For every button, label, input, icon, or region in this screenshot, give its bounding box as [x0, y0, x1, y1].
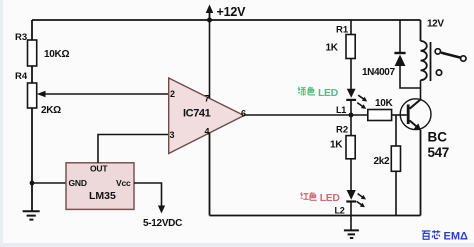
- wire LM35 OUT to op-amp pin 3: [98, 135, 169, 163]
- supply arrowhead down: [158, 206, 165, 214]
- watermark 百芯 EMA: [422, 230, 441, 239]
- svg-text:L2: L2: [335, 206, 345, 216]
- wiper arrowhead: [37, 91, 46, 97]
- transistor Q1 BC547: [400, 99, 431, 130]
- ground (right): [344, 230, 359, 238]
- svg-text:LED: LED: [318, 87, 339, 99]
- svg-text:R4: R4: [15, 71, 28, 82]
- svg-text:547: 547: [428, 145, 449, 160]
- resistor R6 2k2: [391, 146, 400, 171]
- LED L2 (red) symbol: [347, 190, 356, 200]
- wire R4 bottom to GND junction: [31, 108, 33, 211]
- resistor R1: [346, 35, 355, 59]
- svg-text:5-12VDC: 5-12VDC: [143, 218, 182, 229]
- wire top rail corner into relay: [420, 20, 422, 41]
- svg-text:2k2: 2k2: [374, 156, 391, 167]
- relay K1 coil: [421, 41, 427, 80]
- wire base node to 2k2: [395, 115, 397, 146]
- emitter stroke: [410, 121, 419, 129]
- svg-text:3: 3: [170, 130, 175, 140]
- wire LM35 Vcc to supply arrow: [134, 183, 162, 207]
- resistor R2: [346, 136, 355, 159]
- LED L2 arrow a: [356, 192, 367, 202]
- wire 2k2 to bottom rail: [395, 171, 397, 215]
- svg-text:2: 2: [170, 89, 175, 99]
- svg-text:LED: LED: [320, 192, 341, 204]
- op-amp U1 IC741: [169, 78, 244, 154]
- wire diode bottom to relay/collector node: [400, 66, 421, 88]
- wire R4 wiper to op-amp pin 2: [44, 93, 169, 95]
- svg-text:1N4007: 1N4007: [362, 67, 395, 78]
- wire R1 to green LED: [350, 59, 352, 90]
- relay core bar: [430, 42, 432, 81]
- wire op-amp pin 4 down: [209, 133, 211, 216]
- svg-text:10KΩ: 10KΩ: [44, 49, 69, 60]
- wire left column top (to R3): [31, 20, 33, 40]
- wire LED L1 to node: [350, 100, 352, 115]
- svg-text:1K: 1K: [326, 43, 339, 54]
- wire node to R2: [350, 115, 352, 136]
- svg-text:GND: GND: [69, 178, 87, 188]
- collector stroke: [410, 100, 421, 109]
- wire R2 to red LED: [350, 159, 352, 190]
- wire relay bottom to transistor collector: [420, 80, 422, 99]
- wire diode top: [399, 20, 401, 53]
- relay switch contact top: [435, 49, 440, 54]
- svg-text:6: 6: [241, 109, 246, 119]
- label 红色 LED (red): [301, 192, 317, 200]
- svg-text:OUT: OUT: [90, 164, 108, 174]
- label 绿色 LED (green): [298, 87, 315, 96]
- svg-text:L1: L1: [336, 105, 346, 115]
- LED L1 (green) symbol: [347, 89, 356, 98]
- node junction dot (+12V tap): [207, 18, 212, 23]
- wire op-amp output pin 6 to node L1: [244, 114, 368, 116]
- resistor R3: [28, 40, 37, 66]
- wire bottom rail: [210, 215, 421, 217]
- LED L2 arrow b: [355, 199, 366, 209]
- resistor R5 10K (horizontal): [368, 110, 392, 121]
- svg-text:R3: R3: [15, 32, 27, 43]
- svg-text:BC: BC: [428, 130, 448, 145]
- LM35 U2 box: [66, 163, 134, 210]
- wire GND junction to LM35: [32, 182, 66, 184]
- LED L1 arrow b: [356, 101, 368, 111]
- wire top rail +12V: [32, 19, 421, 21]
- emitter arrowhead: [414, 123, 421, 130]
- potentiometer R4: [28, 83, 37, 108]
- wire 10K to transistor base: [392, 114, 407, 116]
- svg-text:2KΩ: 2KΩ: [41, 105, 61, 116]
- node junction dot L1: [349, 113, 354, 118]
- svg-text:LM35: LM35: [89, 190, 116, 202]
- svg-text:R1: R1: [336, 25, 349, 36]
- ground (left): [23, 211, 40, 219]
- svg-text:10K: 10K: [375, 98, 394, 109]
- svg-text:R2: R2: [336, 125, 348, 136]
- svg-text:IC741: IC741: [183, 108, 211, 120]
- svg-text:1K: 1K: [330, 140, 343, 151]
- relay switch contact right: [461, 56, 466, 61]
- wire LED L2 to bottom rail: [350, 202, 352, 230]
- svg-text:Vcc: Vcc: [116, 178, 131, 188]
- svg-text:12V: 12V: [427, 19, 444, 30]
- wire R3 to R4: [31, 66, 33, 83]
- relay switch contact bottom: [436, 70, 441, 75]
- wire emitter to bottom rail: [420, 130, 422, 216]
- wire R1 top: [350, 20, 352, 35]
- svg-text:EMΔ: EMΔ: [444, 231, 469, 243]
- LED L1 arrow a: [357, 93, 369, 103]
- svg-text:+12V: +12V: [217, 5, 247, 19]
- +12V arrow: [209, 11, 211, 20]
- diode D1 1N4007: [394, 52, 405, 54]
- node junction dot (LM35 GND tap): [30, 181, 35, 186]
- relay switch arm: [441, 53, 460, 58]
- wire op-amp pin 7 supply: [209, 20, 211, 98]
